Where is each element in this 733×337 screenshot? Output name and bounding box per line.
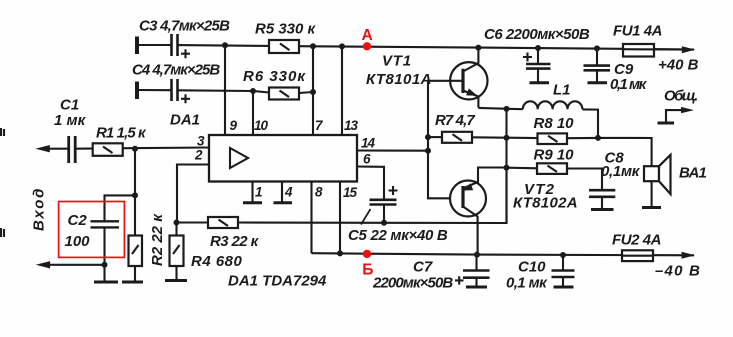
svg-text:С1: С1 [60,97,79,114]
transistor VT2 [450,181,486,217]
node pin13 top [339,43,345,49]
capacitor C6 [537,48,539,64]
ground C6 [530,81,550,84]
svg-text:0,1 мк: 0,1 мк [506,275,548,292]
wire emitter node vertical [505,109,507,223]
svg-text:1: 1 [255,185,262,200]
node R6-pin7 [310,89,316,95]
speaker BA1 [644,166,659,181]
node R1 output [132,146,138,152]
capacitor C1 [69,136,76,163]
svg-text:10: 10 [254,118,269,133]
wire pin6 to C5 [357,167,384,200]
wire R3 feedback line [238,168,507,224]
svg-text:100: 100 [65,233,91,250]
wire input lower [44,264,105,266]
svg-text:С6 2200мк×50В: С6 2200мк×50В [484,26,590,43]
node C3-pin9 [222,42,228,48]
resistor R4 [170,236,184,267]
resistor R3 [208,217,238,228]
svg-text:3: 3 [197,134,205,149]
highlight box C2 [59,202,125,258]
label pointer C5 [361,209,371,225]
ground pin1 [243,201,262,204]
capacitor C8 [589,190,615,197]
svg-text:2: 2 [194,148,203,163]
svg-text:С10: С10 [518,259,546,276]
svg-text:С7: С7 [413,259,433,276]
svg-text:8: 8 [315,185,323,200]
ground C9 [588,81,608,84]
svg-text:13: 13 [344,118,359,133]
capacitor C5 [370,200,397,205]
wire pin8 vertical [310,182,312,254]
svg-text:R7 4,7: R7 4,7 [435,112,475,129]
resistor R2 [129,236,143,267]
svg-text:6: 6 [363,152,371,167]
svg-text:DA1 TDA7294: DA1 TDA7294 [228,273,327,290]
ground pin4 [274,201,293,204]
node L1 right R8 [595,135,601,141]
capacitor C4 [172,79,178,101]
svg-text:R4 680: R4 680 [191,253,243,270]
ground C10 [554,286,574,289]
ground symbol obsh [658,122,675,125]
wire VT1 emitter row [478,108,522,109]
wire top rail [138,44,171,46]
node C2 tap [132,192,138,198]
svg-text:15: 15 [343,185,358,200]
svg-text:–40 В: –40 В [655,263,701,280]
wire pin10 vertical [252,91,254,135]
capacitor C10 [562,255,564,271]
svg-text:R2 22 к: R2 22 к [149,213,166,266]
resistor R6 [269,88,299,100]
svg-text:R6 330к: R6 330к [243,68,306,85]
terminal input C4 [135,82,139,100]
svg-text:Общ.: Общ. [664,88,697,105]
svg-text:L1: L1 [553,82,571,99]
arrow -40V [682,252,696,259]
transistor VT1 [450,62,487,99]
wire R4 bottom [175,266,177,280]
capacitor C9 [596,48,598,65]
svg-text:КТ8102А: КТ8102А [513,195,578,212]
resistor R5 [269,40,299,53]
arrow input lower [36,261,50,268]
node pin15 bottom [337,250,343,256]
capacitor C3 [172,34,178,56]
node R8 left [504,135,510,141]
svg-text:14: 14 [361,136,376,151]
resistor R7 [442,132,472,143]
ground C8 [591,208,614,211]
svg-text:R1 1,5 к: R1 1,5 к [96,125,147,142]
svg-text:7: 7 [315,118,324,133]
capacitor C2 [91,221,120,227]
inductor L1 [523,101,583,109]
wire R2 to ground [134,266,136,281]
svg-text:R8 10: R8 10 [534,115,575,132]
wire C4 row [138,89,171,91]
wire pin7 vertical [312,46,314,135]
arrow +40V [682,46,696,53]
ground R4 [165,279,187,282]
svg-text:+40 В: +40 В [658,57,699,74]
svg-text:1 мк: 1 мк [54,112,87,129]
node L1 left [504,106,510,112]
terminal input C3 [135,37,139,55]
resistor R8 [538,133,568,144]
wire left column vertical [134,149,136,236]
wire input row [44,148,68,150]
svg-text:0,1мк: 0,1мк [601,163,641,180]
fuse FU1 [623,44,654,57]
svg-text:R5 330 к: R5 330 к [255,21,317,38]
node pin14 [425,148,431,154]
wire pin1 [251,182,253,203]
node R9 left [504,165,510,171]
node C5 bottom [381,220,387,226]
svg-text:С2: С2 [68,212,88,229]
wire pin9 vertical [224,45,226,135]
svg-text:R3 22 к: R3 22 к [210,233,260,250]
node R4 tap [174,220,180,226]
svg-text:С4 4,7мк×25В: С4 4,7мк×25В [132,62,220,79]
svg-text:FU2 4А: FU2 4А [612,232,661,249]
wire pin4 [281,182,283,203]
svg-text:R9 10: R9 10 [534,147,575,164]
op-amp U1 DA1 TDA7294 body [209,135,357,182]
svg-text:КТ8101А: КТ8101А [366,71,432,88]
resistor R1 [93,143,123,156]
node R7 left [425,134,431,140]
ground BA1 [642,206,661,209]
wire pin14 [357,149,428,151]
ground C7 [466,286,487,289]
svg-text:С3 4,7мк×25В: С3 4,7мк×25В [139,18,230,35]
node C6 [535,45,541,51]
node VT1 collector [475,45,481,51]
node C10 rail [560,252,566,258]
wire VT1 base vertical [428,81,450,199]
wire bottom rail [312,253,695,255]
wire pin13 vertical [341,46,343,135]
fuse FU2 [622,250,653,261]
node C7 rail [474,252,480,258]
svg-text:Вход: Вход [31,187,48,231]
wire pin2 net [177,165,209,223]
wire pin15 vertical [339,182,341,254]
wire C2 jog [105,195,136,221]
capacitor C7 [475,255,477,271]
node C4-pin10 [250,88,256,94]
node A marker [362,27,373,51]
node B marker [362,250,373,279]
wire output to speaker [598,138,652,166]
svg-text:А: А [362,27,373,44]
svg-text:9: 9 [230,118,238,133]
svg-text:4: 4 [284,185,293,200]
svg-text:С5 22 мк×40 В: С5 22 мк×40 В [348,227,448,244]
svg-text:2200мк×50В: 2200мк×50В [372,275,453,292]
node R5 right [310,43,316,49]
ground R2 [122,281,143,284]
resistor R9 [537,163,567,174]
svg-text:VT1: VT1 [382,53,412,70]
svg-text:0,1 мк: 0,1 мк [610,76,648,93]
ground C2 [94,281,118,284]
node C9 [594,45,600,51]
svg-text:DA1: DA1 [170,112,200,129]
wire edge fragment lower [1,228,4,237]
svg-text:Б: Б [362,261,373,278]
wire edge fragment upper [1,128,4,136]
node C2 lower [102,262,108,268]
svg-text:ВА1: ВА1 [679,165,706,182]
wire R4 top [175,223,177,236]
svg-text:FU1 4А: FU1 4А [613,23,662,40]
arrow input upper [35,145,49,152]
